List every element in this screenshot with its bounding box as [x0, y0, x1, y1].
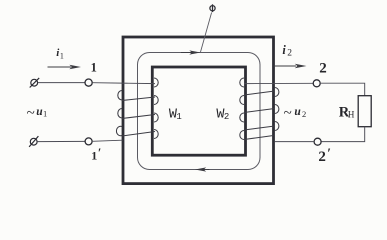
input port symbol ø (bottom left) [29, 136, 38, 147]
svg-text:′: ′ [327, 145, 331, 160]
winding W1 coil turns (around left leg) [116, 78, 158, 139]
svg-text:1: 1 [176, 112, 181, 122]
wire: winding W2 to terminal 2 [244, 82, 313, 84]
flux direction arrow, top of core (points right) [181, 50, 201, 54]
terminal 2' (node circle) [314, 138, 321, 145]
svg-text:~: ~ [284, 106, 292, 122]
W2 outer-side loop arcs [275, 88, 279, 97]
W2 inner-side loop arcs [240, 78, 244, 87]
W1 outer-side loop arcs [118, 91, 122, 101]
resistor RH (load) [358, 96, 371, 127]
magnetic flux path (dashed-free thin loop in core) [138, 53, 261, 170]
flux label Φ (phi symbol) [210, 4, 215, 12]
svg-text:2: 2 [319, 61, 327, 77]
W1 crossing turns over leg [122, 97, 155, 101]
wire: bottom-left ø to terminal 1' [37, 140, 85, 142]
current arrow i1 [48, 65, 82, 70]
wire: winding W2 to terminal 2' [275, 141, 315, 143]
svg-text:1: 1 [91, 148, 97, 162]
terminal 2 (node circle) [313, 80, 320, 87]
wire: terminal 1' to core left leg [92, 140, 123, 141]
svg-text:1: 1 [60, 51, 64, 60]
svg-text:2: 2 [287, 49, 292, 59]
svg-text:2: 2 [224, 112, 229, 122]
current arrow i2 [274, 64, 307, 69]
input port symbol ø (top left) [30, 78, 40, 88]
svg-text:1: 1 [91, 61, 97, 75]
W1 inner-side loop arcs [154, 78, 158, 87]
wire: top-left ø to terminal 1 [38, 82, 85, 84]
terminal 1' (node circle) [85, 138, 92, 145]
wire: terminal 2 to resistor RH (top) [320, 83, 365, 96]
svg-text:~: ~ [27, 106, 35, 122]
leader line from Φ to flux path [201, 13, 212, 53]
winding W2 coil turns (around right leg) [240, 78, 279, 140]
transformer core T outer boundary [123, 37, 274, 184]
svg-text:u: u [294, 106, 301, 118]
flux direction arrow, bottom of core (points left) [195, 167, 210, 171]
wire: terminal 1 to winding W1 [92, 82, 155, 85]
svg-text:2: 2 [302, 109, 306, 119]
wire: resistor RH (bottom) to terminal 2' [321, 127, 365, 142]
svg-text:′: ′ [98, 146, 102, 160]
svg-text:H: H [348, 109, 355, 119]
transformer core T inner boundary (window) [152, 67, 245, 155]
svg-text:2: 2 [318, 149, 326, 165]
W2 crossing turns over leg [244, 91, 275, 95]
svg-text:i: i [282, 43, 286, 57]
terminal 1 (node circle) [85, 79, 92, 86]
svg-text:1: 1 [43, 108, 47, 118]
